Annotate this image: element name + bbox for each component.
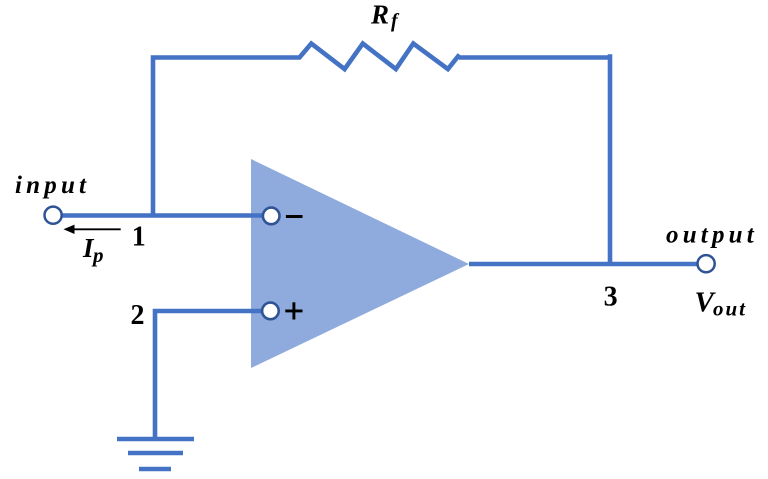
svg-text:output: output <box>666 221 758 248</box>
svg-text:3: 3 <box>604 282 618 313</box>
svg-text:R: R <box>370 0 389 30</box>
svg-text:input: input <box>15 172 90 199</box>
svg-text:1: 1 <box>132 221 146 252</box>
svg-text:out: out <box>713 297 747 321</box>
svg-text:f: f <box>391 10 400 32</box>
svg-text:2: 2 <box>131 300 145 331</box>
svg-text:p: p <box>91 243 104 267</box>
